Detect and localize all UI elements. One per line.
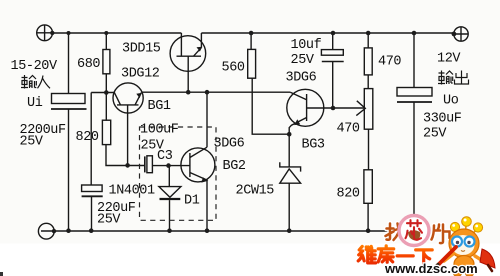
- svg-text:2CW15: 2CW15: [236, 184, 275, 199]
- capacitor 2200uF input: [51, 94, 87, 110]
- svg-text:Ui: Ui: [27, 96, 43, 111]
- wire 820 to bottom rail: [367, 203, 369, 230]
- resistor 560: [248, 49, 256, 78]
- svg-text:100uF: 100uF: [140, 123, 179, 138]
- wire BG3 base to pot wiper arrow: [324, 107, 364, 109]
- svg-text:680: 680: [77, 57, 100, 72]
- resistor 820 left: [102, 120, 110, 144]
- wire BG2 emitter down: [206, 180, 208, 231]
- wire top rail right segment: [201, 32, 453, 34]
- svg-text:330uF: 330uF: [423, 111, 462, 126]
- svg-text:820: 820: [337, 187, 360, 202]
- resistor 470 upper: [364, 48, 372, 75]
- svg-text:470: 470: [378, 55, 401, 70]
- wire 470 to pot: [367, 75, 369, 89]
- svg-text:1N4001: 1N4001: [109, 184, 156, 199]
- svg-text:25V: 25V: [20, 135, 44, 150]
- dashed box around C3 D1 BG2: [140, 127, 217, 220]
- label shuru 输入 hand-drawn: [21, 75, 50, 89]
- watermark logo pian 片: [432, 225, 450, 244]
- svg-text:D1: D1: [184, 194, 200, 209]
- wire pot to 820: [368, 129, 370, 170]
- wire 680 top lead: [105, 33, 107, 50]
- pot wiper arrowhead: [356, 101, 365, 116]
- svg-text:3DG6: 3DG6: [214, 136, 245, 151]
- wire node A horizontal y92 left: [91, 92, 114, 94]
- diode D1 1N4001: [159, 166, 181, 231]
- wire 10uF drop: [332, 33, 334, 50]
- svg-text:3DD15: 3DD15: [122, 42, 161, 57]
- svg-text:820: 820: [76, 130, 99, 145]
- watermark mascot: [434, 217, 496, 276]
- transistor BG3 3DG6: [287, 89, 324, 134]
- label shuchu 输出 hand-drawn: [438, 71, 469, 85]
- wire input cap to bottom rail: [68, 109, 70, 231]
- wire 220uF branch down: [90, 93, 92, 186]
- output terminal +: [454, 27, 468, 41]
- watermark logo zhao 找: [386, 224, 404, 241]
- svg-text:3DG12: 3DG12: [121, 67, 160, 82]
- svg-text:C3: C3: [157, 149, 173, 164]
- wire 470 top lead: [367, 33, 369, 48]
- wire 560 top lead: [250, 33, 252, 49]
- transistor BG1 3DG12: [113, 83, 143, 165]
- svg-text:Uo: Uo: [443, 94, 459, 109]
- svg-text:470: 470: [337, 122, 360, 137]
- wire 330uF to bottom rail: [413, 102, 415, 231]
- wire top rail left segment: [53, 32, 182, 34]
- capacitor 330uF output: [397, 88, 432, 103]
- wire 560 down through y92 to zener node: [252, 78, 289, 134]
- svg-text:www.dzsc.com: www.dzsc.com: [384, 261, 478, 276]
- svg-text:25V: 25V: [97, 213, 121, 228]
- wire bottom rail: [41, 230, 414, 232]
- resistor 820 right: [364, 170, 372, 204]
- transistor 3DD15: [170, 33, 206, 92]
- wire 330uF drop: [413, 33, 415, 88]
- watermark weiku yixia 维库一下 red text: [358, 246, 432, 264]
- watermark logo pink circle with xin 芯: [399, 216, 429, 246]
- svg-text:BG3: BG3: [302, 138, 325, 153]
- wire 680 to 820: [105, 74, 107, 121]
- wire 820 bottom lead to node: [106, 145, 145, 166]
- wire BG2 collector up: [206, 92, 208, 147]
- zener 2CW15: [280, 134, 301, 231]
- transistor BG2 3DG6: [181, 147, 215, 182]
- svg-text:10uf: 10uf: [291, 38, 322, 53]
- corner mark: [0, 272, 3, 276]
- svg-text:15-20V: 15-20V: [11, 59, 59, 74]
- input terminal +: [37, 25, 53, 41]
- wire 10uF to BG3 base node: [332, 62, 334, 109]
- capacitor C3 100uF: [145, 156, 153, 173]
- svg-text:BG2: BG2: [223, 159, 246, 174]
- svg-text:25V: 25V: [291, 53, 315, 68]
- wire base drive y92 middle: [142, 91, 291, 93]
- wire input cap drop: [68, 33, 70, 94]
- svg-text:12V: 12V: [437, 52, 461, 67]
- wire C3 node to BG2: [152, 165, 190, 167]
- ground terminal left: [38, 223, 54, 239]
- resistor 680: [103, 50, 110, 74]
- svg-text:25V: 25V: [423, 127, 447, 142]
- wire 220uF to bottom rail: [91, 196, 93, 230]
- capacitor 220uF: [82, 185, 103, 196]
- svg-text:BG1: BG1: [148, 99, 171, 114]
- capacitor 10uF: [321, 50, 343, 62]
- potentiometer 470: [364, 89, 373, 130]
- svg-text:560: 560: [222, 61, 245, 76]
- svg-text:3DG6: 3DG6: [286, 71, 317, 86]
